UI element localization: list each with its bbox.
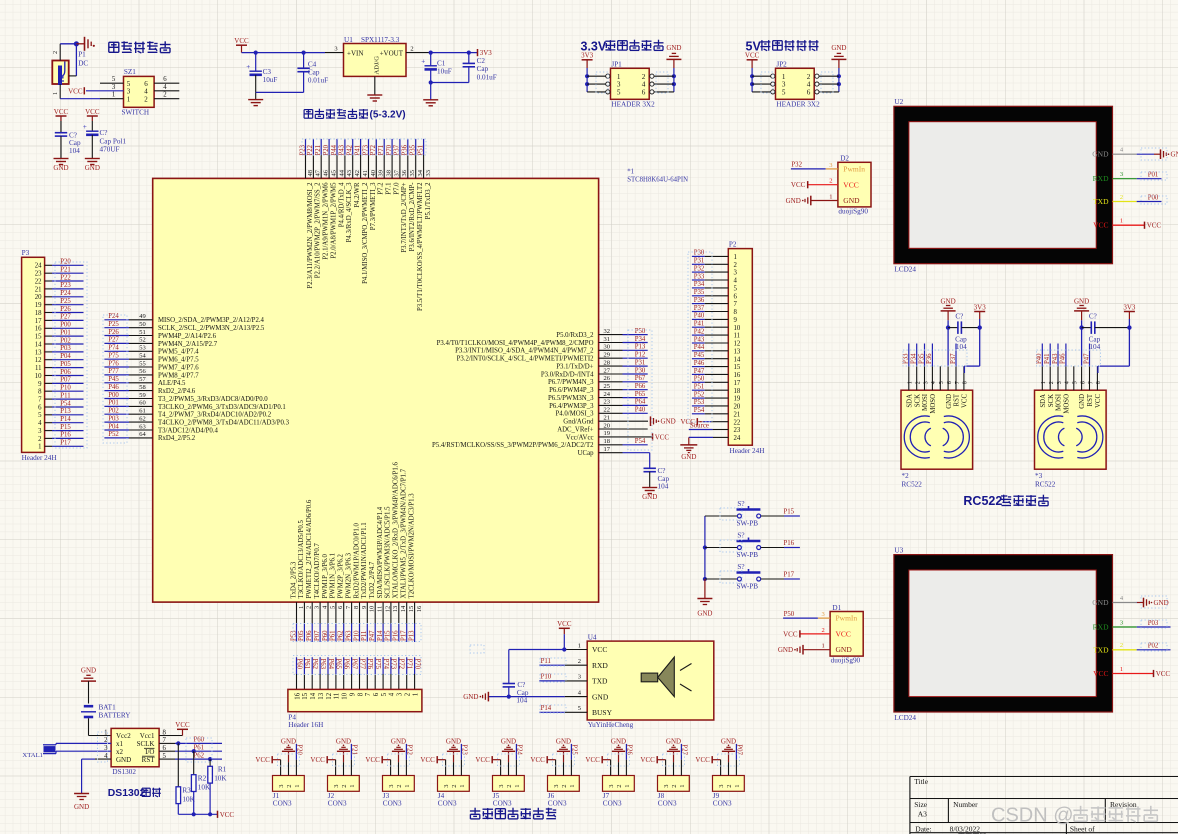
svg-text:P3.6/INT2/RxD_2/CMP-: P3.6/INT2/RxD_2/CMP- [409, 182, 416, 252]
svg-text:T2CLKO/MOSI/PWM2N/ADC3/P1.3: T2CLKO/MOSI/PWM2N/ADC3/P1.3 [408, 493, 415, 599]
svg-text:18: 18 [604, 438, 611, 445]
wire [1081, 320, 1083, 366]
power VCC [54, 108, 69, 133]
svg-text:PWMETI2_2/T4/ADC14/AD6/P0.6: PWMETI2_2/T4/ADC14/AD6/P0.6 [306, 499, 313, 598]
svg-text:P27: P27 [108, 337, 119, 344]
svg-text:P1: P1 [78, 51, 86, 59]
svg-text:P64: P64 [635, 399, 646, 406]
pin 3 VCC [547, 760, 555, 776]
svg-text:GND: GND [831, 44, 846, 52]
svg-text:P5.0/RxD3_2: P5.0/RxD3_2 [556, 332, 594, 339]
svg-text:R2: R2 [198, 775, 207, 783]
svg-text:P01: P01 [1148, 172, 1159, 179]
battery BAT1 [81, 703, 131, 719]
wire P76 [366, 657, 373, 689]
svg-text:P37: P37 [694, 305, 705, 312]
svg-text:VCC: VCC [836, 630, 851, 639]
svg-text:9: 9 [349, 692, 356, 696]
pin 1 P21 [351, 744, 358, 776]
svg-text:32: 32 [604, 328, 611, 335]
svg-text:CON3: CON3 [603, 800, 622, 808]
pin 5 P60 [322, 554, 337, 642]
wire P46 [692, 360, 728, 367]
svg-text:1: 1 [734, 785, 741, 788]
wire [69, 44, 77, 76]
svg-text:MOSO: MOSO [930, 394, 937, 414]
svg-text:PWM1P_3/P6.0: PWM1P_3/P6.0 [322, 554, 329, 599]
svg-text:PWM8_4/P7.7: PWM8_4/P7.7 [158, 372, 199, 379]
svg-text:CSDN @: CSDN @ [991, 805, 1074, 827]
svg-text:1: 1 [569, 785, 576, 788]
svg-text:14: 14 [310, 692, 317, 699]
wire P77 [358, 657, 365, 689]
svg-text:x1: x1 [116, 740, 124, 748]
wire P40 [692, 313, 728, 320]
svg-text:LCD24: LCD24 [894, 714, 916, 722]
svg-text:4: 4 [163, 84, 167, 91]
svg-text:26: 26 [604, 375, 611, 382]
svg-text:ALE/P4.5: ALE/P4.5 [158, 380, 186, 387]
wire [255, 75, 257, 100]
pin 1 [771, 74, 775, 78]
power VCC [475, 756, 492, 764]
pin 44 P44 [331, 139, 346, 227]
svg-text:P40: P40 [635, 407, 646, 414]
svg-text:+: + [83, 123, 87, 131]
svg-text:P14: P14 [541, 705, 552, 712]
pin 3 P06 [306, 499, 321, 642]
svg-text:3V3: 3V3 [1123, 303, 1136, 311]
svg-text:P47: P47 [1083, 353, 1090, 364]
svg-text:GND: GND [281, 738, 296, 746]
svg-text:1: 1 [578, 642, 581, 649]
svg-text:16: 16 [35, 326, 42, 333]
svg-text:GND: GND [1154, 599, 1169, 607]
svg-text:P72: P72 [370, 144, 377, 155]
wire [242, 52, 326, 54]
svg-text:Source: Source [690, 423, 709, 430]
svg-text:P20: P20 [323, 144, 330, 155]
RTC DS1302 [104, 728, 166, 776]
pin 51 P26 [104, 329, 216, 340]
svg-text:DS1302: DS1302 [112, 768, 136, 776]
junction [585, 74, 589, 78]
svg-text:P65: P65 [635, 391, 646, 398]
capacitor C? 104 [948, 313, 980, 351]
junction [703, 577, 707, 581]
pin 42 P42 [347, 139, 362, 208]
svg-text:ADJ/G: ADJ/G [374, 56, 381, 75]
svg-text:48: 48 [307, 170, 314, 177]
svg-text:P25: P25 [108, 321, 119, 328]
junction [467, 51, 471, 55]
pin 50 P25 [104, 321, 265, 332]
svg-text:2: 2 [616, 785, 623, 788]
connector P4 Header 16H [288, 689, 422, 729]
wire P03 [45, 345, 84, 352]
svg-text:P54: P54 [694, 407, 705, 414]
power VCC [255, 756, 272, 764]
svg-text:49: 49 [139, 313, 146, 320]
pin 57 P45 [104, 376, 186, 387]
svg-text:P41: P41 [1044, 353, 1051, 364]
svg-text:1: 1 [679, 785, 686, 788]
pin 54 P75 [104, 353, 199, 364]
svg-text:P3.2/INT0/SCLK_4/SCL_4/PWMETI/: P3.2/INT0/SCLK_4/SCL_4/PWMETI/PWMETI2 [457, 356, 594, 363]
svg-text:6: 6 [642, 89, 646, 97]
svg-text:P13: P13 [60, 408, 71, 415]
svg-text:1: 1 [294, 785, 301, 788]
wire [431, 67, 469, 83]
svg-text:TxD4_2/P5.3: TxD4_2/P5.3 [290, 561, 297, 598]
svg-text:19: 19 [734, 396, 741, 403]
wire left bus [751, 68, 753, 92]
svg-text:P50: P50 [784, 611, 795, 618]
power VCC [420, 756, 437, 764]
pin 12 P14 [377, 506, 392, 642]
svg-text:6: 6 [1080, 381, 1086, 384]
wire [819, 75, 839, 77]
svg-text:1: 1 [782, 73, 786, 81]
pin 9 P10 [353, 523, 368, 642]
svg-text:P7.2: P7.2 [378, 182, 385, 195]
wire [654, 91, 674, 93]
title block [910, 777, 1178, 834]
pin 3 MOSI [1052, 344, 1063, 412]
svg-text:GND: GND [391, 738, 406, 746]
svg-text:2: 2 [341, 785, 348, 788]
svg-text:35: 35 [409, 170, 416, 177]
svg-text:D2: D2 [840, 155, 849, 163]
svg-text:R1: R1 [218, 765, 227, 773]
pin 1 P07 [736, 744, 743, 776]
svg-text:GND: GND [666, 44, 681, 52]
svg-text:5: 5 [112, 76, 116, 83]
svg-text:2: 2 [1049, 381, 1055, 384]
svg-text:+VOUT: +VOUT [380, 50, 404, 58]
junction [1079, 325, 1083, 329]
svg-text:VCC: VCC [530, 756, 545, 764]
MCU U? STC8H8K64U-64PIN body [153, 178, 599, 602]
svg-text:P43: P43 [694, 336, 705, 343]
svg-text:U2: U2 [894, 98, 903, 106]
svg-text:14: 14 [400, 605, 407, 612]
ground [336, 738, 351, 752]
svg-text:3: 3 [1120, 619, 1123, 626]
svg-text:53: 53 [139, 345, 146, 352]
svg-text:P30: P30 [694, 250, 705, 257]
node Source [689, 423, 729, 430]
svg-text:16: 16 [416, 605, 423, 612]
svg-text:1: 1 [52, 92, 59, 95]
wire [508, 687, 510, 697]
svg-text:PWM5_4/P7.4: PWM5_4/P7.4 [158, 349, 199, 356]
svg-text:XTALO/MCLKO_2/RxD_3/PWM4P/ADC6: XTALO/MCLKO_2/RxD_3/PWM4P/ADC6/P1.6 [393, 462, 400, 599]
svg-text:Vcc/AVcc: Vcc/AVcc [566, 434, 594, 441]
svg-text:P11: P11 [541, 658, 551, 665]
wire P21 [45, 267, 84, 274]
svg-text:44: 44 [338, 169, 345, 176]
servo D2 duojiSg90 [838, 155, 871, 216]
svg-text:P37: P37 [950, 353, 957, 364]
svg-text:R3: R3 [182, 787, 191, 795]
svg-text:TXD: TXD [1093, 645, 1109, 654]
svg-text:P02: P02 [108, 408, 119, 415]
wire P54 [692, 407, 728, 414]
svg-text:TxD2_2/P4.7: TxD2_2/P4.7 [369, 561, 376, 598]
pin 34 P35 [410, 139, 425, 311]
wire [60, 44, 76, 61]
svg-text:GND: GND [556, 738, 571, 746]
svg-text:GND: GND [501, 738, 516, 746]
regulator U1 SPX1117-3.3 [344, 36, 407, 77]
svg-text:104: 104 [516, 696, 527, 704]
svg-text:1: 1 [127, 96, 131, 104]
svg-text:SCK: SCK [914, 394, 921, 407]
junction [192, 812, 196, 816]
pin 4 GND [82, 759, 112, 793]
connector J6 CON3 [548, 776, 580, 808]
capacitor C2 0.01uF [463, 57, 497, 81]
svg-text:GND: GND [786, 197, 801, 205]
svg-text:2: 2 [396, 785, 403, 788]
pin 2 GND [563, 751, 565, 775]
svg-text:P40: P40 [694, 313, 705, 320]
pin 60 P01 [104, 400, 285, 411]
svg-text:Header 24H: Header 24H [730, 447, 765, 455]
pin 1 GND [786, 194, 838, 206]
wire P75 [374, 657, 381, 689]
wire P54 [45, 400, 84, 407]
svg-text:P11: P11 [60, 392, 70, 399]
title dianyuan-zhuanhuan-dianlu [304, 109, 406, 121]
svg-text:4: 4 [38, 420, 42, 427]
pin 2 TXD [1093, 642, 1170, 654]
pin 3 VCC [437, 760, 445, 776]
junction [672, 74, 676, 78]
capacitor C1 10uF [421, 58, 452, 76]
svg-text:*3: *3 [1035, 472, 1043, 480]
pin 2 P05 [298, 520, 313, 642]
svg-text:PwmIn: PwmIn [843, 165, 865, 174]
svg-text:Vcc2: Vcc2 [116, 732, 131, 740]
svg-text:GND: GND [446, 738, 461, 746]
wire pin4 [154, 84, 179, 91]
svg-text:P21: P21 [60, 267, 71, 274]
ground [81, 666, 96, 681]
svg-text:3: 3 [334, 45, 337, 52]
wire P24 [45, 290, 84, 297]
svg-text:64: 64 [139, 431, 146, 438]
svg-text:PWM4P_2/A14/P2.6: PWM4P_2/A14/P2.6 [158, 333, 217, 340]
svg-text:P70: P70 [413, 659, 420, 670]
svg-text:56: 56 [139, 368, 146, 375]
svg-text:VCC: VCC [557, 620, 572, 628]
svg-text:SDA: SDA [1040, 394, 1047, 408]
pin 2 GND [673, 751, 675, 775]
svg-text:GND: GND [1092, 150, 1109, 159]
power VCC [365, 756, 382, 764]
svg-text:0.01uF: 0.01uF [477, 73, 497, 81]
pin 3 RXD [1093, 171, 1162, 183]
pin 52 P27 [104, 337, 217, 348]
power VCC [218, 811, 235, 819]
svg-text:GND: GND [1171, 151, 1178, 159]
ground [53, 159, 68, 173]
wire [752, 83, 771, 85]
svg-text:SW-PB: SW-PB [737, 583, 759, 591]
svg-text:P36: P36 [926, 353, 933, 364]
pin 45 P20 [323, 139, 338, 259]
svg-text:GND: GND [941, 297, 956, 305]
pin 32 P50 [556, 328, 647, 339]
svg-text:4: 4 [931, 381, 937, 384]
pin 1 GND [778, 643, 830, 655]
pin 1 P27 [681, 744, 688, 776]
svg-text:3: 3 [388, 785, 395, 788]
svg-text:6: 6 [734, 293, 738, 300]
svg-text:34: 34 [417, 169, 424, 176]
junction [750, 74, 754, 78]
wire P43 [692, 336, 728, 343]
svg-text:3: 3 [718, 785, 725, 788]
pin 4 P07 [314, 543, 329, 642]
svg-text:P42: P42 [694, 328, 705, 335]
LCD U2 LCD24 [894, 98, 1113, 274]
svg-text:16: 16 [734, 372, 741, 379]
ground [721, 738, 736, 752]
ground [248, 100, 263, 106]
svg-text:GND: GND [836, 645, 853, 654]
wire P07 [45, 377, 84, 384]
wire P47 [692, 368, 728, 375]
svg-text:PWM2N_3/P6.3: PWM2N_3/P6.3 [345, 552, 352, 598]
wire [430, 53, 432, 66]
pin 3 P50 [783, 611, 830, 618]
svg-text:VCC: VCC [85, 108, 100, 116]
svg-text:1: 1 [734, 254, 737, 261]
ground [697, 599, 712, 618]
svg-text:P70: P70 [386, 144, 393, 155]
svg-text:P34: P34 [635, 336, 646, 343]
svg-text:P00: P00 [1148, 194, 1159, 201]
svg-text:P63: P63 [319, 659, 326, 670]
pin 11 P47 [369, 561, 384, 642]
svg-text:P63: P63 [345, 630, 352, 641]
svg-text:T4CLKO/AD7/P0.7: T4CLKO/AD7/P0.7 [314, 543, 321, 599]
svg-text:12: 12 [326, 692, 333, 699]
title DS1302 mokuai [108, 788, 161, 800]
svg-text:P42: P42 [347, 144, 354, 155]
svg-text:P47: P47 [369, 630, 376, 641]
pin 2 GND [288, 751, 290, 775]
wire P32 [692, 265, 728, 272]
svg-text:VCC: VCC [640, 756, 655, 764]
svg-text:8: 8 [353, 606, 360, 609]
svg-text:XTALI/PWM5_2/TxD_3/PWM4N/ADC7/: XTALI/PWM5_2/TxD_3/PWM4N/ADC7/P1.7 [401, 468, 408, 598]
svg-text:11: 11 [35, 365, 42, 372]
pin 6 GND [946, 366, 953, 408]
junction [429, 51, 433, 55]
svg-text:VCC: VCC [475, 756, 490, 764]
svg-text:C?: C? [100, 129, 108, 137]
svg-text:GND: GND [592, 692, 609, 701]
pin 6 GND [1079, 366, 1086, 408]
ground [1074, 297, 1089, 320]
svg-text:C4: C4 [308, 60, 317, 68]
svg-text:2: 2 [144, 96, 148, 104]
power VCC [585, 756, 602, 764]
svg-text:P17: P17 [60, 440, 71, 447]
wire right bus [673, 68, 675, 92]
svg-text:CON3: CON3 [493, 800, 512, 808]
svg-text:VCC: VCC [420, 756, 435, 764]
wire P16 [45, 432, 84, 439]
resistor R3 10K [176, 743, 196, 814]
wire P10 [45, 385, 84, 392]
wire P71 [406, 657, 413, 689]
svg-text:CON3: CON3 [548, 800, 567, 808]
connector J9 CON3 [713, 776, 745, 808]
pin 64 P52 [104, 431, 195, 442]
svg-text:20: 20 [734, 404, 741, 411]
svg-text:13: 13 [318, 692, 325, 699]
svg-text:14: 14 [35, 341, 42, 348]
svg-text:P67: P67 [350, 659, 357, 670]
svg-text:SWITCH: SWITCH [122, 109, 150, 117]
svg-text:12: 12 [734, 341, 741, 348]
svg-text:10: 10 [369, 606, 376, 613]
svg-text:P44: P44 [694, 344, 705, 351]
svg-text:P50: P50 [635, 328, 646, 335]
wire P36 [692, 297, 728, 304]
svg-text:GND: GND [946, 394, 953, 409]
svg-text:P5.4/RST/MCLKO/SS/SS_3/PWM2P/P: P5.4/RST/MCLKO/SS/SS_3/PWM2P/PWM6_2/ADC2… [432, 442, 594, 449]
pin ADJ [374, 76, 376, 95]
svg-text:RxD2_2/P4.6: RxD2_2/P4.6 [158, 388, 196, 395]
svg-text:57: 57 [139, 376, 146, 383]
svg-text:P62: P62 [338, 630, 345, 641]
svg-text:P47: P47 [694, 368, 705, 375]
svg-text:3: 3 [923, 381, 929, 384]
svg-text:18: 18 [35, 310, 42, 317]
ground [1144, 598, 1169, 608]
svg-text:C?: C? [658, 467, 666, 475]
svg-text:GND: GND [642, 493, 657, 501]
pin 23 P64 [549, 399, 648, 410]
svg-text:P54: P54 [60, 400, 71, 407]
junction [208, 757, 212, 761]
ground [556, 738, 571, 752]
pin 5 [939, 366, 945, 390]
svg-text:5: 5 [381, 692, 388, 696]
svg-text:1: 1 [112, 92, 115, 99]
svg-text:SPX1117-3.3: SPX1117-3.3 [361, 36, 400, 44]
svg-text:1: 1 [349, 785, 356, 788]
svg-text:Cap: Cap [658, 475, 670, 483]
svg-text:P65: P65 [335, 659, 342, 670]
wire pin3 [86, 84, 124, 91]
wire P02 [45, 337, 84, 344]
svg-text:P50: P50 [694, 376, 705, 383]
svg-text:55: 55 [139, 360, 146, 367]
svg-text:3: 3 [608, 785, 615, 788]
wire [89, 718, 112, 735]
wire P53 [692, 399, 728, 406]
svg-text:TxD2/PWM1N/ADC1/P1.1: TxD2/PWM1N/ADC1/P1.1 [361, 522, 368, 598]
svg-text:3: 3 [1120, 171, 1123, 178]
svg-text:GND: GND [336, 738, 351, 746]
